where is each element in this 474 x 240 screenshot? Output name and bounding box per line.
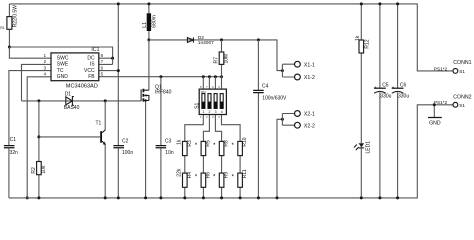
svg-text:IS: IS bbox=[90, 62, 95, 68]
wire pin7 riser and stub bbox=[99, 58, 113, 64]
svg-text:1: 1 bbox=[202, 110, 204, 114]
wire GND stub at CONN2 bbox=[433, 105, 435, 118]
wire C6 bottom to rail bbox=[397, 92, 399, 197]
resistor R2 bbox=[37, 162, 42, 175]
junction GND stub on CONN2 wire bbox=[433, 103, 436, 106]
svg-text:R5: R5 bbox=[205, 140, 211, 147]
capacitor C3 bbox=[156, 146, 167, 148]
svg-text:SWE: SWE bbox=[57, 62, 69, 68]
junction LED1 on rail bbox=[360, 196, 363, 199]
wire R7 bottom lead bbox=[221, 64, 223, 76]
svg-text:R7: R7 bbox=[213, 57, 219, 64]
svg-text:1n4007: 1n4007 bbox=[198, 40, 214, 46]
junction X2 on rail bbox=[276, 196, 279, 199]
svg-text:R22/0.5W: R22/0.5W bbox=[13, 5, 19, 28]
wire top rail (mains+ to CONN1) bbox=[9, 4, 453, 71]
junction pin8/pin7 tie bbox=[111, 57, 114, 60]
resistor R5 bbox=[201, 141, 206, 155]
svg-text:R11: R11 bbox=[242, 169, 248, 178]
junction X2 feed bbox=[281, 118, 284, 121]
svg-text:*: * bbox=[232, 142, 235, 149]
resistor R6 bbox=[201, 173, 206, 187]
svg-text:5: 5 bbox=[218, 85, 220, 89]
svg-text:VCC: VCC bbox=[84, 68, 95, 74]
junction Q1 source on rail bbox=[144, 196, 147, 199]
junction R9 on rail bbox=[220, 196, 223, 199]
svg-text:330u: 330u bbox=[380, 93, 391, 99]
svg-text:6: 6 bbox=[101, 65, 104, 70]
wire D2 line to X1 feed bbox=[149, 40, 283, 71]
junction L1 / D2 line / Q1 drain bbox=[147, 38, 150, 41]
svg-text:R3: R3 bbox=[187, 140, 193, 147]
svg-text:7: 7 bbox=[101, 59, 104, 64]
wire C3 bottom to ground rail bbox=[160, 148, 162, 198]
svg-text:100n: 100n bbox=[122, 150, 133, 156]
wire S1 out a to R3 bbox=[185, 115, 204, 142]
junction R4 on rail bbox=[183, 196, 186, 199]
svg-text:2: 2 bbox=[206, 115, 208, 119]
connector CONN2 pin S1 bbox=[453, 102, 458, 107]
inductor L1 bbox=[147, 13, 151, 31]
op-amp/regulator IC1 MC34063AD box bbox=[51, 53, 99, 81]
svg-text:32n: 32n bbox=[10, 150, 19, 156]
wire C3 column bbox=[160, 77, 162, 145]
resistor R11 bbox=[238, 173, 243, 187]
wire S1 out b to R5 bbox=[203, 115, 209, 142]
svg-text:C6: C6 bbox=[400, 83, 407, 89]
wire R3-R4 link and R4 to rail bbox=[184, 156, 186, 198]
svg-text:2: 2 bbox=[44, 59, 47, 64]
svg-text:X1-2: X1-2 bbox=[304, 75, 315, 81]
switch S1 slider 1 bbox=[202, 94, 205, 109]
svg-text:L1: L1 bbox=[142, 22, 148, 28]
svg-text:7: 7 bbox=[206, 85, 208, 89]
junction D2 line / R7 bbox=[220, 38, 223, 41]
ground symbol bbox=[428, 117, 442, 119]
wire LED1 to ground rail bbox=[360, 148, 362, 198]
switch S1 slider 2 bbox=[208, 94, 211, 109]
junction R1 bottom node bbox=[8, 46, 11, 49]
junction pin6 / VCC column bbox=[117, 69, 120, 72]
svg-text:1: 1 bbox=[44, 53, 47, 58]
svg-text:R6: R6 bbox=[205, 172, 211, 179]
svg-text:330u: 330u bbox=[398, 93, 409, 99]
capacitor C4 bbox=[253, 90, 264, 92]
svg-text:+: + bbox=[392, 85, 395, 90]
junction D1 line / R2 branch bbox=[37, 99, 40, 102]
wire S1 pin a drop bbox=[202, 77, 204, 89]
svg-text:1k: 1k bbox=[177, 139, 183, 145]
svg-text:CONN2: CONN2 bbox=[453, 95, 471, 101]
diode D1 BAS40 bbox=[66, 97, 74, 106]
svg-text:X2-1: X2-1 bbox=[304, 112, 315, 118]
wire S1 out d to R10 bbox=[222, 115, 241, 142]
junction C6 / top rail bbox=[396, 2, 399, 5]
resistor R1 bbox=[7, 17, 12, 30]
wire Q1 drain column bbox=[148, 40, 150, 90]
junction FB / S1 pin b bbox=[208, 75, 211, 78]
svg-text:1k: 1k bbox=[355, 35, 361, 41]
wire R5-R6 link and R6 to rail bbox=[202, 156, 204, 198]
switch S1 dip-4 body bbox=[199, 89, 226, 114]
wire C5 column top bbox=[379, 4, 381, 88]
svg-text:PS1*2: PS1*2 bbox=[434, 100, 448, 105]
svg-text:CONN1: CONN1 bbox=[453, 60, 471, 66]
svg-text:+: + bbox=[374, 85, 377, 90]
svg-text:8: 8 bbox=[200, 85, 202, 89]
wire IC1 pin4 GND to ground rail bbox=[27, 77, 51, 198]
wire R12 top lead bbox=[360, 4, 362, 40]
junction R2 on rail bbox=[37, 196, 40, 199]
svg-text:LED1: LED1 bbox=[365, 141, 371, 154]
transistor T1 npn bbox=[100, 131, 102, 143]
LED LED1 bbox=[359, 143, 365, 147]
svg-text:3: 3 bbox=[44, 65, 47, 70]
svg-text:5: 5 bbox=[101, 72, 104, 77]
connector pin X1-2 bbox=[295, 74, 301, 80]
wire bottom ground rail to CONN2 bbox=[9, 105, 453, 198]
junction C3 on rail bbox=[159, 196, 162, 199]
svg-text:C1: C1 bbox=[10, 137, 17, 143]
resistor R4 bbox=[183, 173, 188, 187]
wire IC1 pin5 FB line bbox=[99, 76, 222, 78]
svg-text:ON: ON bbox=[201, 90, 206, 94]
wire L1 top lead bbox=[148, 4, 150, 13]
wire R1 top lead bbox=[8, 4, 10, 17]
wire S1 out c to R8 bbox=[215, 115, 221, 142]
wire T1 emitter to ground rail bbox=[104, 145, 106, 198]
junction FB / S1 pin a bbox=[202, 75, 205, 78]
svg-text:T1: T1 bbox=[96, 120, 102, 126]
svg-text:R10: R10 bbox=[242, 137, 248, 146]
wire VCC column from top rail bbox=[117, 4, 119, 145]
wire IC1 pin8 stub bbox=[99, 57, 113, 59]
capacitor C5 electrolytic bbox=[374, 87, 386, 89]
svg-text:GND: GND bbox=[429, 120, 441, 126]
junction R12 column / top rail bbox=[360, 2, 363, 5]
svg-text:R8: R8 bbox=[224, 140, 230, 147]
svg-text:*: * bbox=[213, 174, 216, 181]
svg-text:R9: R9 bbox=[224, 172, 230, 179]
svg-text:R12: R12 bbox=[364, 39, 370, 48]
connector pin X2-1 bbox=[295, 111, 301, 117]
svg-text:3: 3 bbox=[215, 110, 217, 114]
svg-text:R2: R2 bbox=[31, 167, 37, 174]
wire R1 bottom lead to node bbox=[8, 29, 10, 47]
junction VCC column / top rail bbox=[117, 2, 120, 5]
wire C5 bottom to rail bbox=[379, 92, 381, 197]
svg-text:*: * bbox=[232, 174, 235, 181]
resistor R9 bbox=[219, 173, 224, 187]
svg-text:C5: C5 bbox=[382, 83, 389, 89]
svg-text:SWC: SWC bbox=[57, 56, 69, 62]
wire C1 bottom to ground rail bbox=[8, 148, 10, 198]
switch S1 slider 4 bbox=[220, 94, 223, 109]
svg-text:X1-1: X1-1 bbox=[304, 62, 315, 68]
svg-text:IC1: IC1 bbox=[91, 47, 99, 53]
wire R7 top lead bbox=[221, 40, 223, 52]
svg-text:TC: TC bbox=[57, 68, 64, 74]
transistor Q1 IRF840 mosfet bbox=[140, 89, 142, 101]
resistor R8 bbox=[219, 141, 224, 155]
junction L1 column / top rail bbox=[147, 2, 150, 5]
wire X1 bracket bbox=[282, 64, 294, 77]
svg-text:*: * bbox=[195, 142, 198, 149]
junction C2 on rail bbox=[117, 196, 120, 199]
junction D1 line / T1 collector bbox=[104, 99, 107, 102]
svg-text:S1: S1 bbox=[459, 103, 465, 108]
svg-text:10n: 10n bbox=[165, 150, 174, 156]
svg-text:S1: S1 bbox=[194, 102, 200, 108]
wire T1 collector column bbox=[104, 101, 106, 130]
svg-text:BAS40: BAS40 bbox=[64, 105, 80, 111]
wire D1 line to Q1 gate bbox=[22, 100, 141, 102]
wire node to IC1 pin8 DC (over IC) bbox=[9, 47, 112, 58]
svg-text:X2-2: X2-2 bbox=[304, 123, 315, 129]
wire C2 bottom to ground rail bbox=[117, 148, 119, 198]
wire R12 to LED1 bbox=[360, 53, 362, 143]
wire Q1 source column bbox=[145, 101, 147, 198]
junction C5 / top rail bbox=[378, 2, 381, 5]
svg-text:C3: C3 bbox=[165, 138, 172, 144]
resistor R10 bbox=[238, 141, 243, 155]
svg-text:PS1*2: PS1*2 bbox=[434, 66, 448, 71]
junction FB / R7 / S1 pin d bbox=[220, 75, 223, 78]
junction pin4 column on rail bbox=[26, 196, 29, 199]
wire L1 bottom lead bbox=[148, 31, 150, 40]
wire IC1 pin2 SWE down to D1 line bbox=[22, 64, 52, 101]
junction R11 on rail bbox=[239, 196, 242, 199]
connector pin X2-2 bbox=[295, 122, 301, 128]
junction R6 on rail bbox=[202, 196, 205, 199]
svg-text:MC34063AD: MC34063AD bbox=[66, 84, 98, 90]
resistor R12 bbox=[359, 40, 364, 53]
diode D2 1N4007 bbox=[187, 37, 193, 42]
capacitor C6 electrolytic bbox=[392, 87, 404, 89]
svg-text:D1: D1 bbox=[65, 92, 72, 98]
svg-text:R4: R4 bbox=[187, 172, 193, 179]
capacitor C2 bbox=[113, 146, 124, 148]
junction FB / S1 pin c bbox=[214, 75, 217, 78]
junction T1 emitter on rail bbox=[104, 196, 107, 199]
wire IC1 pin3 TC to C1 bbox=[9, 71, 51, 145]
svg-text:8: 8 bbox=[101, 53, 104, 58]
wire S1 pin c drop bbox=[214, 77, 216, 89]
wire S1 pin b drop bbox=[208, 77, 210, 89]
svg-text:S1: S1 bbox=[459, 69, 465, 74]
resistor R3 bbox=[183, 141, 188, 155]
svg-text:2: 2 bbox=[209, 110, 211, 114]
svg-text:100n/630V: 100n/630V bbox=[262, 96, 287, 102]
junction C6 on rail bbox=[396, 196, 399, 199]
junction C5 on rail bbox=[378, 196, 381, 199]
resistor R7 bbox=[219, 52, 224, 64]
svg-text:6: 6 bbox=[212, 85, 214, 89]
svg-text:4: 4 bbox=[44, 72, 47, 77]
connector pin X1-1 bbox=[295, 61, 301, 67]
wire R8-R9 link and R9 to rail bbox=[221, 156, 223, 198]
svg-text:22k: 22k bbox=[177, 168, 183, 177]
wire node to IC1 pin1 SWC bbox=[9, 47, 51, 58]
svg-text:3: 3 bbox=[212, 115, 214, 119]
svg-text:DC: DC bbox=[87, 56, 95, 62]
switch S1 slider 3 bbox=[214, 94, 217, 109]
svg-text:GND: GND bbox=[57, 74, 69, 80]
junction FB / C3 branch bbox=[159, 75, 162, 78]
wire T1 base bbox=[39, 136, 100, 138]
wire S1 pin d drop bbox=[221, 77, 223, 89]
svg-text:R1: R1 bbox=[0, 26, 4, 30]
svg-text:FB: FB bbox=[88, 74, 95, 80]
svg-text:C2: C2 bbox=[122, 138, 129, 144]
svg-text:10k: 10k bbox=[41, 165, 47, 174]
wire IC1 pin6 VCC stub bbox=[99, 70, 119, 72]
junction X1 feed bbox=[281, 69, 284, 72]
svg-text:4: 4 bbox=[218, 115, 220, 119]
capacitor C1 bbox=[4, 146, 15, 148]
connector CONN1 pin S1 bbox=[453, 69, 458, 74]
junction C4 on rail bbox=[257, 196, 260, 199]
wire C6 column top bbox=[397, 4, 399, 88]
wire C4 column bbox=[257, 40, 259, 198]
svg-text:*: * bbox=[213, 142, 216, 149]
svg-text:IRF840: IRF840 bbox=[155, 89, 172, 95]
svg-text:10M: 10M bbox=[224, 54, 230, 64]
svg-text:C4: C4 bbox=[262, 83, 269, 89]
svg-text:4: 4 bbox=[221, 110, 223, 114]
svg-text:1: 1 bbox=[200, 115, 202, 119]
wire R2 column from D1 line bbox=[38, 101, 40, 162]
wire R10-R11 link and R11 to rail bbox=[239, 156, 241, 198]
junction R2 column / T1 base bbox=[37, 135, 40, 138]
junction D2 line / C4 bbox=[257, 38, 260, 41]
svg-text:680m: 680m bbox=[152, 15, 158, 28]
svg-text:*: * bbox=[195, 174, 198, 181]
wire X2 bracket bbox=[282, 114, 294, 126]
wire R2 bottom to ground rail bbox=[38, 175, 40, 198]
wire X2 feed from ground rail bbox=[277, 119, 282, 198]
